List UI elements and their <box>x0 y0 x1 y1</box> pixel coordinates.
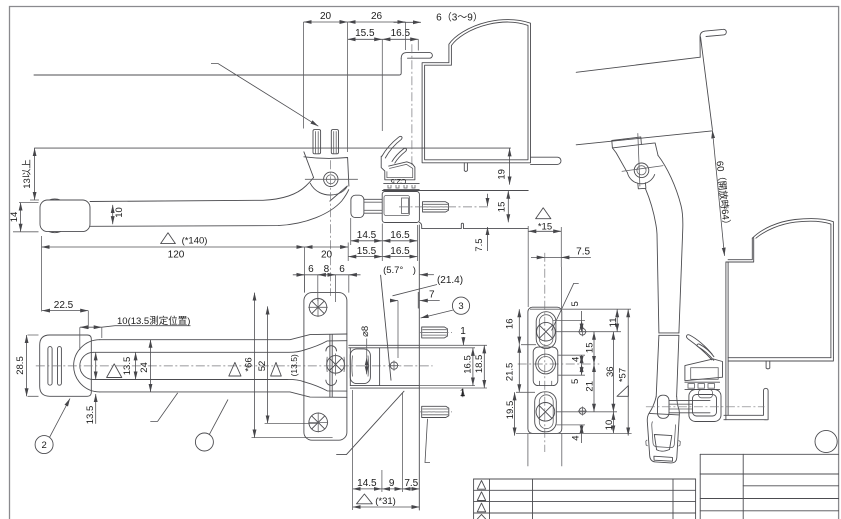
(5.7°) line <box>381 275 391 380</box>
frame top-left step <box>726 238 754 262</box>
dim 1 lower <box>419 386 487 388</box>
svg-text:21.5: 21.5 <box>504 363 515 382</box>
svg-text:22.5: 22.5 <box>54 300 74 311</box>
keeper right edge <box>418 225 420 510</box>
keeper body <box>382 192 419 223</box>
keeper beak open 2 <box>697 344 714 360</box>
dim *66 <box>254 293 256 438</box>
svg-text:7.5: 7.5 <box>474 238 485 251</box>
dim ⌀8 <box>366 357 368 374</box>
svg-text:16.5: 16.5 <box>462 355 473 374</box>
dim 6 8 6 <box>293 274 361 276</box>
door face line <box>35 147 511 149</box>
bracket body <box>612 143 658 173</box>
svg-text:C2.5: C2.5 <box>391 177 407 186</box>
pivot pin circles <box>324 172 338 186</box>
dim 15.5 / 16.5 lower <box>348 256 382 258</box>
right dim col D: 11 <box>616 309 618 332</box>
triangle (*140) <box>161 233 176 244</box>
keeper bracket open <box>685 359 723 381</box>
small hole upper <box>579 328 586 335</box>
arm joint lines <box>659 333 679 335</box>
top slot outer <box>536 312 556 349</box>
door edge line <box>701 37 713 130</box>
frame outer profile <box>422 20 530 163</box>
table triangles <box>477 481 485 490</box>
right dim col E: *57 <box>627 309 629 435</box>
door top edge line <box>34 59 401 76</box>
handle plate <box>40 335 92 396</box>
svg-text:16.5: 16.5 <box>390 230 410 241</box>
section diagonal <box>337 391 404 454</box>
keeper screw <box>423 202 449 212</box>
svg-text:6（3～9）: 6（3～9） <box>436 11 483 23</box>
svg-text:9: 9 <box>389 478 395 489</box>
right table (title block) <box>700 454 838 511</box>
svg-text:15.5: 15.5 <box>355 28 375 39</box>
ext verticals above <box>561 267 563 309</box>
dim 120 / 20 bottom <box>42 246 305 248</box>
center line <box>544 253 546 452</box>
svg-text:52: 52 <box>257 361 268 372</box>
svg-text:(*140): (*140) <box>182 236 208 247</box>
balloon 2 <box>35 436 53 454</box>
keeper hook lip 1 <box>382 136 402 158</box>
svg-text:16.5: 16.5 <box>390 246 410 257</box>
plate face outline <box>528 307 562 433</box>
svg-text:11: 11 <box>608 317 619 327</box>
left table <box>474 479 696 513</box>
svg-text:4: 4 <box>570 357 581 362</box>
knob grip bumps <box>49 199 61 233</box>
knob (side view) <box>40 200 90 232</box>
svg-text:14: 14 <box>9 212 20 223</box>
mounting tab 1 <box>313 130 321 154</box>
svg-text:6: 6 <box>339 264 345 275</box>
balloon bottom right <box>815 430 837 452</box>
keeper base plate <box>419 222 528 228</box>
triangle (*31) <box>357 494 373 504</box>
balloon empty <box>195 433 213 451</box>
arm tip inner edge <box>330 186 348 201</box>
svg-text:8: 8 <box>324 264 330 275</box>
dim 22.5 <box>42 310 88 312</box>
arm inner curve <box>645 189 659 333</box>
arm top edge <box>90 178 314 202</box>
svg-text:28.5: 28.5 <box>15 356 26 375</box>
spring bumps <box>326 346 337 386</box>
extension lines bottom <box>42 218 418 312</box>
svg-text:10: 10 <box>604 420 615 431</box>
svg-text:15: 15 <box>496 202 507 213</box>
svg-text:13.5: 13.5 <box>122 357 133 376</box>
pin housing front <box>350 349 370 384</box>
svg-text:(*31): (*31) <box>375 496 396 507</box>
triangle 1 <box>107 364 122 378</box>
arm bend verticals <box>330 335 332 397</box>
svg-text:(5.7° ): (5.7° ) <box>383 265 416 276</box>
dim 16.5 keeper front <box>472 348 474 386</box>
door tongue profile <box>401 53 432 59</box>
pivot crosshair <box>305 178 358 180</box>
svg-text:6: 6 <box>308 264 314 275</box>
svg-text:4: 4 <box>570 435 581 440</box>
svg-text:3: 3 <box>458 301 463 312</box>
pivot rivet <box>327 356 345 374</box>
svg-text:21: 21 <box>585 381 596 392</box>
svg-text:15.5: 15.5 <box>357 246 377 257</box>
lower screw rod <box>422 406 449 417</box>
leader to lower rod <box>425 419 430 463</box>
svg-text:19.5: 19.5 <box>505 401 516 420</box>
door outer face line <box>576 57 700 72</box>
lower screw X <box>536 403 555 422</box>
dim 1 upper <box>419 345 487 348</box>
dim 7.5 keeper <box>487 227 489 251</box>
svg-text:*57: *57 <box>617 368 628 382</box>
dim 10 arm width <box>112 205 114 224</box>
pin housing open <box>689 390 721 422</box>
svg-text:5: 5 <box>570 379 581 384</box>
frame arch top right <box>752 219 833 358</box>
svg-text:26: 26 <box>371 11 383 22</box>
keeper beak open 1 <box>686 335 712 360</box>
svg-text:10: 10 <box>114 207 125 218</box>
door tongue (rotated) <box>700 29 726 57</box>
strike pin (side view) <box>351 195 364 217</box>
keeper front: bottom thick lines <box>350 386 419 389</box>
boss arc open <box>627 173 654 184</box>
arm outer curve <box>658 155 683 333</box>
arm fold lines at head <box>305 341 347 391</box>
door inner face line <box>576 131 712 145</box>
frame flange right <box>531 157 562 164</box>
plate slot 2 <box>58 347 62 386</box>
svg-text:7: 7 <box>429 289 435 300</box>
extension lines top <box>304 22 419 152</box>
pin shaft open <box>669 400 710 412</box>
leader to tab <box>211 64 318 127</box>
pivot circles <box>536 354 556 374</box>
keeper bracket <box>381 156 415 180</box>
svg-text:20: 20 <box>320 11 332 22</box>
dim 14 <box>20 203 22 232</box>
svg-text:*66: *66 <box>244 357 255 371</box>
keeper pin centerline <box>399 206 490 208</box>
dim 52 <box>267 306 269 423</box>
dim 20 / 26 top <box>304 21 348 23</box>
crosshair open <box>622 133 664 186</box>
triangle *15 <box>536 208 551 219</box>
top screw X <box>537 322 556 341</box>
keeper rail <box>384 184 420 190</box>
plate front outline <box>304 293 347 441</box>
dimensions of view 2 <box>382 148 591 307</box>
pivot outer <box>533 347 558 386</box>
bracket top tab <box>612 137 642 148</box>
svg-text:19: 19 <box>497 169 508 180</box>
frame bottom edge <box>728 358 833 361</box>
small hole lower <box>579 408 586 415</box>
triangle on *57 <box>617 386 628 397</box>
dim 28.5 <box>26 335 28 396</box>
dim 19 <box>509 148 511 184</box>
frame bottom notch <box>464 163 467 172</box>
svg-text:13.5: 13.5 <box>85 406 96 425</box>
svg-text:13以上: 13以上 <box>22 159 33 189</box>
keeper left edge ext <box>352 390 354 510</box>
bottom screw <box>309 413 328 432</box>
svg-text:120: 120 <box>168 250 185 261</box>
dim 18.5 keeper front <box>483 345 485 388</box>
dim 7.5 right <box>531 256 591 258</box>
pin cap open <box>658 395 670 418</box>
svg-text:2: 2 <box>41 440 46 451</box>
svg-text:(21.4): (21.4) <box>437 275 463 286</box>
svg-text:1: 1 <box>460 388 466 399</box>
svg-text:18.5: 18.5 <box>474 355 485 374</box>
svg-text:16.5: 16.5 <box>391 28 411 39</box>
right dim col C: 36 <box>612 332 614 412</box>
plate slot 1 <box>48 347 52 386</box>
svg-text:1: 1 <box>460 326 466 337</box>
dimensions of view 1 <box>9 11 483 312</box>
svg-text:*15: *15 <box>538 221 552 232</box>
svg-text:7.5: 7.5 <box>404 478 418 489</box>
left dims 16 / 21.5 / 19.5 <box>518 309 520 345</box>
keeper rail bottom (open view) <box>724 388 768 420</box>
svg-text:(13.5): (13.5) <box>289 354 299 376</box>
dim 15 <box>507 191 509 223</box>
dim 14.5 / 16.5 <box>351 240 383 242</box>
svg-text:14.5: 14.5 <box>357 478 377 489</box>
screw centerline <box>411 44 413 166</box>
lower slot inner <box>539 395 553 429</box>
arm slot plan <box>80 352 94 379</box>
svg-text:⌀8: ⌀8 <box>360 326 371 337</box>
small screw hole <box>390 362 397 369</box>
right dim 10 <box>612 412 614 434</box>
svg-text:5: 5 <box>570 301 581 306</box>
svg-text:14.5: 14.5 <box>357 230 377 241</box>
svg-text:7.5: 7.5 <box>576 247 590 258</box>
top screw <box>309 299 327 317</box>
keeper front verticals <box>350 348 379 386</box>
balloon 3 <box>452 297 469 314</box>
dim 24 <box>150 340 152 392</box>
lower slot outer <box>535 392 557 432</box>
center line plan <box>36 365 433 367</box>
arm outline plan <box>74 340 100 392</box>
pivot body <box>304 152 349 186</box>
svg-text:15: 15 <box>585 343 596 354</box>
dim 13以上 <box>34 148 36 200</box>
frame bottom notch <box>766 361 770 369</box>
svg-text:24: 24 <box>139 362 150 373</box>
knob open view <box>647 397 679 463</box>
keeper front: top lines <box>349 345 420 348</box>
frame section right: left vertical <box>726 262 728 420</box>
upper screw rod <box>422 327 448 338</box>
ext lines horizontals <box>529 309 632 433</box>
dim 13.5 lower <box>95 394 97 424</box>
right dim col B: 15 / 21 <box>593 332 595 364</box>
small tab below boss <box>638 183 646 189</box>
mounting tab 2 <box>331 130 338 154</box>
arm lower part <box>656 335 679 396</box>
svg-text:16: 16 <box>504 319 515 330</box>
right dim col A: 5/4/5/4 <box>581 320 583 331</box>
top slot inner <box>539 315 553 346</box>
dim 60 (開放時64) <box>712 130 724 256</box>
frame inner profile <box>425 22 528 160</box>
dim 15.5 / 16.5 top <box>348 38 383 40</box>
bent leader <box>150 393 177 422</box>
triangle 3 <box>271 362 282 376</box>
keeper rail open <box>685 382 720 389</box>
pivot boss arc <box>310 183 347 195</box>
leader from top slot <box>552 283 579 330</box>
keeper hook lip 2 <box>392 148 406 163</box>
pivot circle open <box>634 163 649 178</box>
svg-text:36: 36 <box>605 366 616 377</box>
triangle 2 <box>229 362 241 376</box>
arm bottom edge (elbow curve) <box>90 190 349 227</box>
center line open pin <box>646 406 765 408</box>
dims 14.5 9 7.5 <box>353 488 382 490</box>
keeper top line <box>382 190 528 192</box>
dim 13.5 slot <box>95 352 97 379</box>
svg-text:20: 20 <box>321 250 333 261</box>
